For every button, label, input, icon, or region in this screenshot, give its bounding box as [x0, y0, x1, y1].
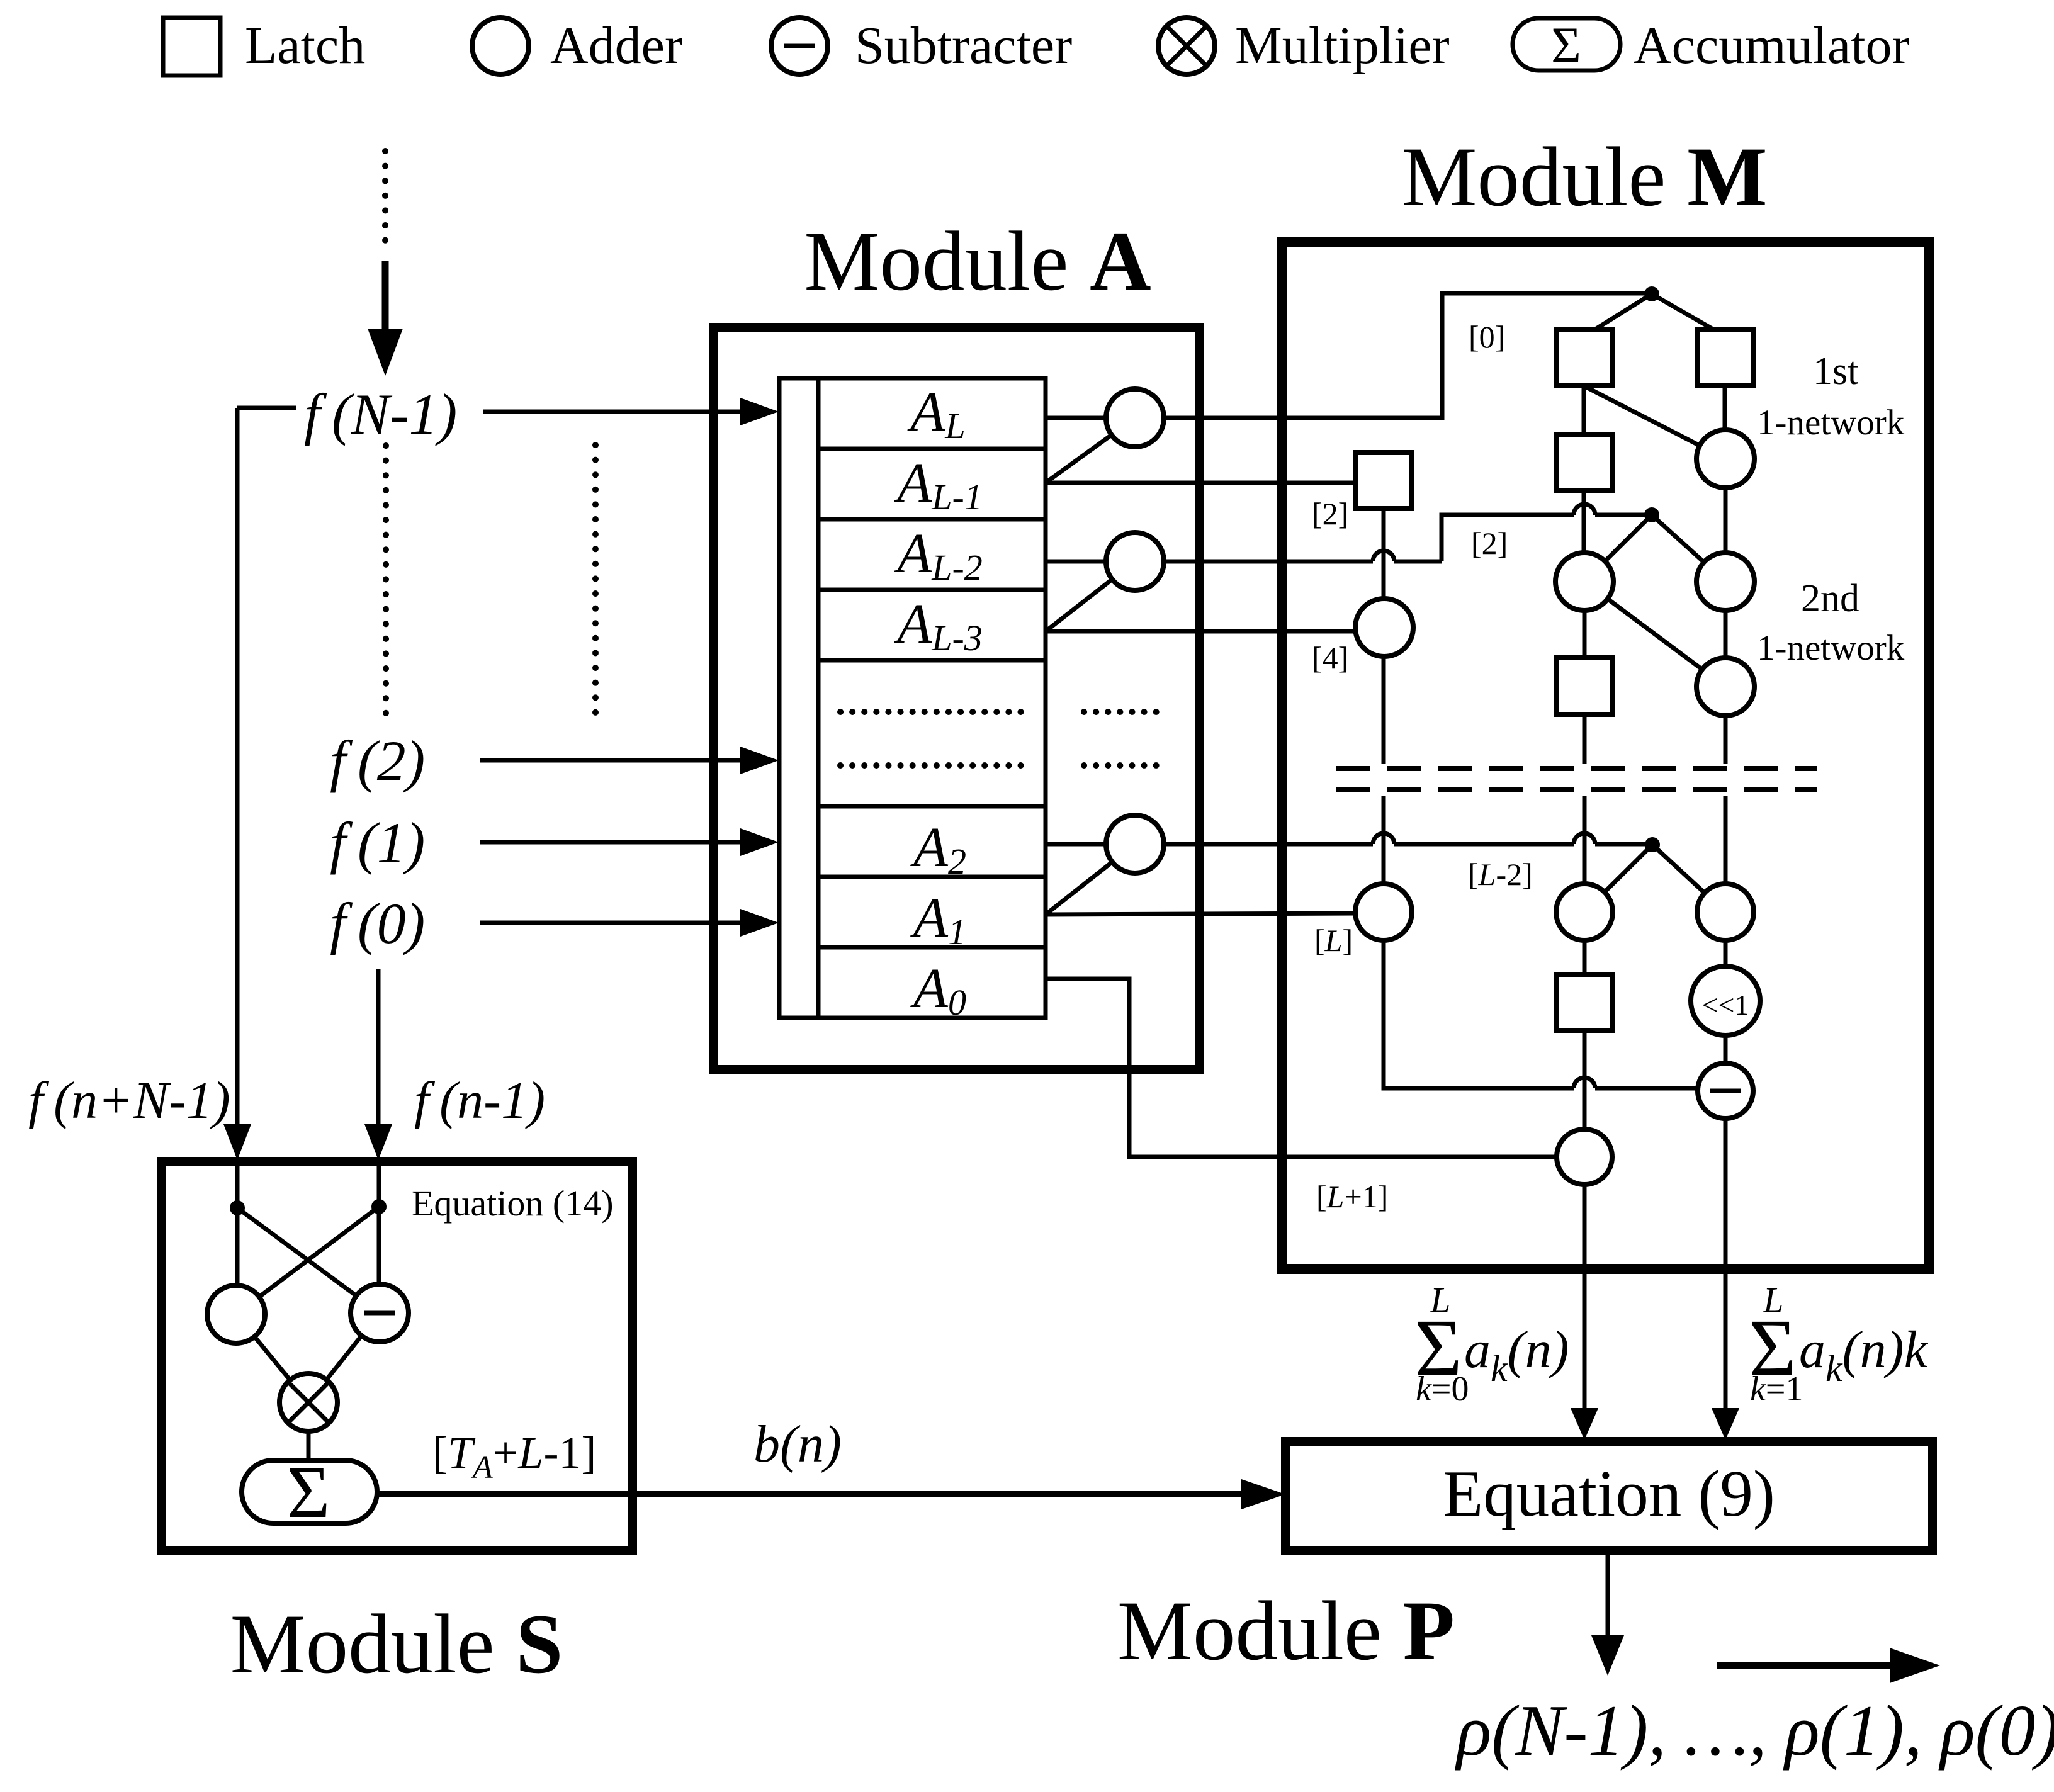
wire adder4R down to shifter [1724, 940, 1728, 967]
svg-text:b(n): b(n) [753, 1415, 842, 1474]
svg-text:ak(n)k: ak(n)k [1799, 1321, 1929, 1389]
svg-text:2nd: 2nd [1801, 577, 1859, 620]
svg-text:Module S: Module S [230, 1598, 563, 1691]
adder [L+1] [1557, 1129, 1612, 1185]
wire multiplier to accumulator [307, 1431, 311, 1462]
wire adder1R down to adder2R [1724, 488, 1728, 553]
adder 2R [1696, 553, 1754, 611]
wire latch4M down to adder [L+1] (hop under [L] wire) [1583, 1030, 1587, 1130]
svg-text:<<1: <<1 [1702, 989, 1749, 1021]
wire middle column down to break [1583, 714, 1587, 764]
wire right input inside S [377, 1161, 381, 1285]
latch square 1L [1556, 329, 1612, 386]
adder 2M [1555, 553, 1613, 611]
svg-text:f (n-1): f (n-1) [414, 1071, 545, 1130]
wire diagonal dot1 to latch 1L [1586, 294, 1652, 335]
accumulator stadium in S [242, 1460, 377, 1523]
dotted rows right of stack [1084, 709, 1165, 715]
svg-text:Latch: Latch [245, 16, 365, 75]
junction dot1 [1644, 286, 1659, 301]
svg-text:[L-2]: [L-2] [1468, 857, 1533, 892]
wire latch1L to latch2L [1582, 386, 1586, 434]
wire adder2M down to latch3M [1583, 611, 1587, 658]
wire left column down to break [1382, 657, 1386, 764]
latch square 3M [1557, 658, 1612, 714]
latch square 4M [1557, 974, 1612, 1030]
svg-text:[L+1]: [L+1] [1316, 1179, 1388, 1214]
wire A_1 diagonal to adder [1046, 844, 1135, 915]
Module P border box [1285, 1441, 1933, 1550]
adder A_L+A_L-1 [1106, 389, 1164, 447]
svg-text:Adder: Adder [550, 16, 682, 75]
svg-text:Equation (14): Equation (14) [412, 1183, 614, 1224]
wire shifter down to subtracter [1724, 1035, 1728, 1064]
wire f(2) arrow into Module A [480, 758, 740, 763]
wire diagonal dot2 to adder2M [1584, 515, 1652, 582]
svg-text:1st: 1st [1813, 350, 1858, 393]
svg-text:Module M: Module M [1401, 130, 1767, 224]
wire A_L row to adder and to Module M corner [1046, 293, 1645, 418]
svg-text:[L]: [L] [1314, 923, 1353, 958]
wire output arrow from Module P [1606, 1550, 1610, 1638]
wire A_L-3 diagonal to adder [1046, 561, 1135, 631]
wire cross diagonal right dot to adder [236, 1207, 379, 1314]
wire f(n-1) vertical down to Module S [376, 969, 381, 1127]
svg-text:[TA+L-1]: [TA+L-1] [432, 1428, 596, 1485]
legend subtracter circle [771, 18, 828, 74]
wire diagonal dot2 to adder2R [1652, 515, 1725, 582]
svg-text:ak(n): ak(n) [1464, 1321, 1569, 1389]
wire A_L-1 row to Module M latch [1046, 481, 1356, 485]
svg-text:[2]: [2] [1312, 496, 1348, 531]
wire diagonal dot3 to adder4M [1584, 845, 1652, 912]
svg-text:[2]: [2] [1471, 526, 1508, 561]
wire A_1 row to [L] adder [1046, 913, 1357, 915]
wire A_L-2 row to adder, corner up to [2] net with hop [1046, 515, 1645, 561]
svg-text:L: L [1763, 1280, 1783, 1321]
adder A_2+A_1 [1106, 815, 1164, 873]
wire left bus f(n+N-1) vertical [235, 408, 240, 1127]
junction dot2 [1644, 507, 1659, 522]
svg-text:L: L [1430, 1280, 1450, 1321]
svg-text:f (N-1): f (N-1) [304, 382, 457, 446]
coefficient stack outer box [779, 378, 1046, 1018]
wire cross diagonal left dot to subtracter [237, 1208, 380, 1313]
adder in S [207, 1285, 265, 1343]
shifter <<1 circle [1691, 966, 1760, 1035]
junction dot left [230, 1200, 245, 1215]
wire f(1) arrow into Module A [480, 840, 740, 845]
wire f(0) arrow into Module A [480, 921, 740, 925]
svg-text:Module A: Module A [804, 215, 1151, 308]
svg-text:1-network: 1-network [1757, 403, 1905, 442]
wire A_L-1 diagonal to adder [1046, 418, 1135, 483]
wire diagonal adder2M to adder3R [1584, 582, 1725, 687]
output stream arrow (right) [1717, 1662, 1891, 1669]
subtracter right column [1698, 1063, 1753, 1119]
subtracter in S [351, 1284, 409, 1342]
wire left column resume below break [1382, 796, 1386, 884]
adder 4R [1697, 884, 1754, 940]
wire f(N-1) arrow into Module A [483, 410, 742, 414]
wire diagonal latch1L to adder1R [1584, 386, 1725, 459]
dotted column left (between f(N-1) and f(2)) [383, 446, 389, 718]
wire A_0 row down and right to [L+1] adder [1046, 979, 1558, 1157]
legend multiplier circle [1158, 18, 1215, 74]
wire b(n) from accumulator to Module P [377, 1491, 1243, 1497]
break dashed line lower [1336, 787, 1817, 792]
wire A_L-3 row to [4] adder [1046, 629, 1357, 634]
wire diagonal dot3 to adder4R [1652, 845, 1725, 912]
wire sum output column down to Module P [1583, 1185, 1587, 1410]
svg-text:Σ: Σ [1551, 16, 1581, 74]
input dotted stream (top) [382, 151, 388, 251]
stack dotted rows [840, 709, 1025, 715]
adder [4] left column [1355, 599, 1413, 657]
junction dot3 [1645, 837, 1660, 852]
adder 4M [1556, 884, 1613, 940]
svg-text:Module P: Module P [1117, 1584, 1455, 1678]
dotted column right [592, 445, 599, 718]
svg-text:[4]: [4] [1312, 640, 1348, 675]
legend adder circle [472, 18, 529, 74]
adder A_L-2+A_L-3 [1106, 533, 1164, 590]
Module M border box [1282, 242, 1929, 1269]
svg-text:k=1: k=1 [1750, 1370, 1803, 1409]
stack cell boundaries [818, 449, 1046, 947]
input arrow (thick down) [382, 261, 389, 332]
stack input column divider [816, 378, 821, 1018]
svg-text:f (2): f (2) [330, 729, 425, 793]
adder [L] left [1355, 884, 1412, 940]
svg-text:Equation (9): Equation (9) [1443, 1457, 1775, 1530]
wire right column down to break [1724, 716, 1728, 764]
formula sum a_k(n) [1414, 1280, 1569, 1409]
Module S border box [161, 1161, 633, 1550]
svg-text:Subtracter: Subtracter [855, 16, 1072, 75]
svg-text:ρ(N-1), …, ρ(1), ρ(0): ρ(N-1), …, ρ(1), ρ(0) [1455, 1691, 2054, 1771]
svg-text:f (1): f (1) [330, 811, 425, 875]
legend latch square [163, 18, 220, 76]
formula sum a_k(n)k [1749, 1280, 1929, 1409]
svg-text:f (n+N-1): f (n+N-1) [28, 1071, 230, 1130]
svg-text:[0]: [0] [1469, 319, 1505, 354]
wire right column resume below break [1724, 796, 1728, 884]
latch square 1R [1697, 329, 1753, 386]
wire left input inside S [235, 1161, 240, 1287]
svg-text:Multiplier: Multiplier [1235, 16, 1450, 75]
adder 3R [1696, 658, 1754, 716]
multiplier in S [279, 1373, 337, 1431]
svg-text:f (0): f (0) [330, 891, 425, 955]
wire diagonal dot1 to latch 1R [1652, 294, 1723, 335]
Module A border box [713, 327, 1200, 1069]
wire adder2R down to adder3R [1724, 611, 1728, 658]
wire latch2L down to adder2M (hop under [2] net) [1582, 491, 1586, 553]
wire latch1R down to adder1R [1723, 386, 1727, 430]
wire subtracter to multiplier [308, 1313, 380, 1402]
break dashed line upper [1336, 766, 1817, 771]
latch square 2L [1556, 434, 1612, 491]
wire weighted sum column down to Module P [1724, 1119, 1728, 1410]
svg-text:1-network: 1-network [1757, 628, 1905, 668]
adder 1R [1696, 430, 1754, 488]
svg-text:Σ: Σ [287, 1451, 330, 1533]
svg-text:Accumulator: Accumulator [1634, 16, 1910, 75]
wire [L] adder down then right to subtracter (hop at middle column) [1384, 940, 1699, 1088]
wire adder4M down to latch4M [1583, 940, 1587, 974]
wire bracket from f(N-1) to left bus [237, 406, 296, 410]
legend accumulator stadium [1513, 18, 1620, 70]
wire adder to multiplier [236, 1314, 308, 1402]
wire [2] latch down to [4] adder (hop under A_L-2 row) [1382, 509, 1386, 599]
wire A_2 row through adder to [L-2] net with hops [1046, 842, 1645, 847]
junction dot right [371, 1199, 387, 1214]
latch square [2] left column [1355, 453, 1412, 509]
wire middle column resume below break [1583, 796, 1587, 884]
svg-text:k=0: k=0 [1416, 1370, 1469, 1409]
